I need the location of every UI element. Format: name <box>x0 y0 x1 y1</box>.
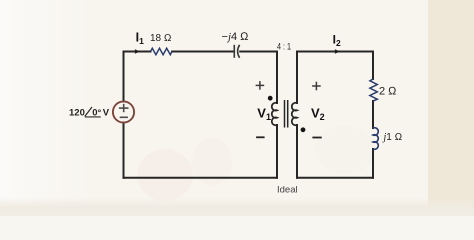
angle symbol underline <box>85 116 101 118</box>
svg-text:V: V <box>103 107 110 118</box>
wire: left vertical above source <box>123 52 125 102</box>
svg-text:4 : 1: 4 : 1 <box>277 41 291 52</box>
current arrow I1 <box>135 49 140 54</box>
resistor R2 2-ohm <box>370 79 377 101</box>
wire: right vertical above 2-ohm resistor <box>372 52 374 80</box>
wire: right vertical below inductor <box>372 149 374 178</box>
wire: primary vertical above coil <box>276 52 278 104</box>
wire: left loop top segment 3 (capacitor to primary corner) <box>240 51 277 53</box>
svg-text:120: 120 <box>69 107 85 118</box>
inductor L1 j1-ohm <box>373 128 378 150</box>
polarity minus V2 <box>312 137 321 139</box>
current arrow I2 <box>335 49 340 54</box>
transformer primary winding <box>272 103 277 125</box>
transformer secondary winding <box>292 103 297 125</box>
wire: right loop top <box>297 51 373 53</box>
voltage source Vs 120V <box>113 101 134 122</box>
wire: right loop bottom <box>297 177 373 179</box>
svg-text:Ideal: Ideal <box>277 184 298 195</box>
wire: secondary vertical below coil <box>296 125 298 178</box>
resistor R1 18-ohm <box>151 48 173 54</box>
capacitor C1 -j4-ohm <box>234 45 239 58</box>
wire: left loop top segment 1 <box>124 51 151 53</box>
svg-text:−j4 Ω: −j4 Ω <box>222 31 250 43</box>
wire: left loop top segment 2 (between resistor and capacitor) <box>172 51 234 53</box>
wire: secondary vertical above coil <box>296 52 298 104</box>
svg-text:j1 Ω: j1 Ω <box>382 132 403 143</box>
label source voltage 120 angle 0 V <box>69 107 110 118</box>
polarity plus V1 <box>256 81 265 90</box>
wire: right vertical between resistor and inductor <box>372 101 374 128</box>
dot primary <box>268 96 273 101</box>
wire: left vertical below source <box>123 123 125 178</box>
svg-text:18 Ω: 18 Ω <box>150 33 172 44</box>
polarity minus V1 <box>256 136 265 138</box>
transformer core <box>285 100 288 128</box>
polarity plus V2 <box>312 82 321 91</box>
dot secondary <box>301 127 306 132</box>
wire: primary vertical below coil <box>276 125 278 178</box>
wire: left loop bottom <box>124 177 278 179</box>
angle symbol slash <box>85 107 92 116</box>
svg-text:2 Ω: 2 Ω <box>379 86 397 98</box>
